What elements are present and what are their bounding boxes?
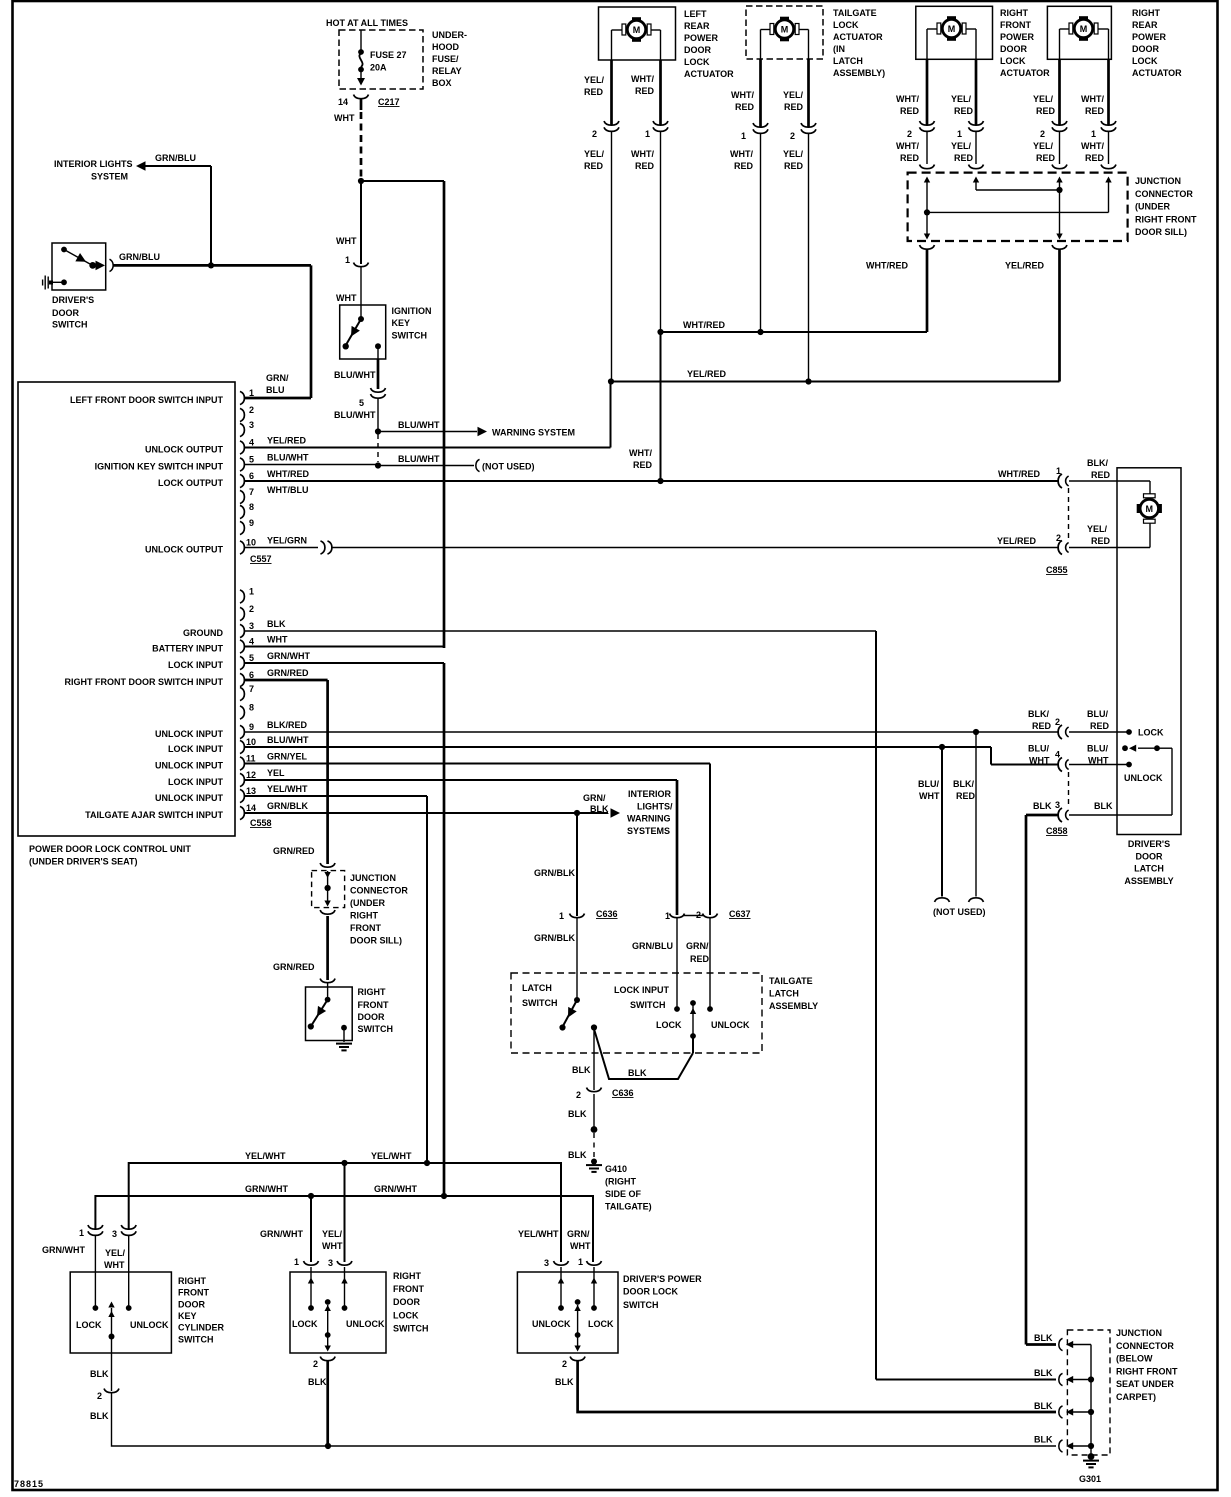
wire YEL/WHT bottom bus <box>129 1151 561 1262</box>
svg-text:GRN/: GRN/ <box>266 373 289 383</box>
node BLU/WHT pin5 junction <box>375 462 381 468</box>
svg-text:SWITCH: SWITCH <box>630 1000 666 1010</box>
connector 3 driver's power switch <box>518 1229 569 1268</box>
svg-text:DOOR SILL): DOOR SILL) <box>1135 227 1187 237</box>
wire YEL/RED junction to bus <box>1005 250 1060 382</box>
svg-text:RED: RED <box>584 161 604 171</box>
svg-text:POWER: POWER <box>1000 32 1035 42</box>
right front door lock switch box <box>290 1267 386 1353</box>
wire GRN/BLU to interior lights system <box>136 153 211 265</box>
junction connector (under right front door sill) small <box>312 863 345 914</box>
C558 pin numbers <box>246 587 256 814</box>
connector C557 pin brackets <box>240 391 244 554</box>
wire GRN/BLK down to tailgate latch <box>534 813 577 916</box>
svg-text:RIGHT: RIGHT <box>1132 8 1161 18</box>
svg-text:RED: RED <box>734 161 754 171</box>
svg-text:1: 1 <box>578 1257 583 1267</box>
svg-text:RED: RED <box>954 153 974 163</box>
label right front power door lock actuator <box>1000 8 1050 78</box>
svg-text:1: 1 <box>294 1257 299 1267</box>
wire BLK ground bus to junction horizontal <box>876 1379 1056 1381</box>
svg-text:GRN/BLK: GRN/BLK <box>267 801 308 811</box>
wire right rear pin2 into junction connector <box>1059 132 1061 164</box>
svg-text:DOOR SILL): DOOR SILL) <box>350 936 402 946</box>
svg-text:BLU/WHT: BLU/WHT <box>267 453 309 463</box>
svg-text:BLK: BLK <box>1094 801 1113 811</box>
wire BLK to G410 <box>568 1094 597 1160</box>
svg-text:SYSTEM: SYSTEM <box>91 172 128 182</box>
wire YEL/RED down to unlock output pin4 <box>610 382 612 448</box>
svg-text:LOCK: LOCK <box>76 1320 102 1330</box>
svg-text:(NOT USED): (NOT USED) <box>482 462 535 472</box>
svg-text:LOCK: LOCK <box>588 1319 614 1329</box>
svg-text:RED: RED <box>784 161 804 171</box>
svg-text:BLK: BLK <box>1034 1401 1053 1411</box>
svg-text:BLK: BLK <box>90 1411 109 1421</box>
motor M driver's door latch <box>1137 494 1162 523</box>
wire BLU/WHT dashed to pin 5 <box>377 434 379 462</box>
label G410 right side of tailgate <box>605 1164 652 1212</box>
wire YEL/RED down to YEL/RED bus <box>611 132 613 382</box>
wire GRN/BLU to lock contact <box>632 918 682 1030</box>
svg-text:KEY: KEY <box>392 318 411 328</box>
svg-text:IGNITION KEY SWITCH INPUT: IGNITION KEY SWITCH INPUT <box>95 462 224 472</box>
svg-text:RIGHT: RIGHT <box>393 1271 422 1281</box>
svg-text:SIDE OF: SIDE OF <box>605 1189 642 1199</box>
svg-text:LOCK OUTPUT: LOCK OUTPUT <box>158 478 223 488</box>
svg-text:78815: 78815 <box>14 1479 44 1489</box>
svg-text:BLU/: BLU/ <box>918 779 939 789</box>
wire BLU/WHT from ignition switch <box>334 359 378 389</box>
connector 2 key cylinder <box>90 1389 119 1421</box>
wire BLK driver's switch to junction <box>578 1361 1056 1412</box>
svg-text:LATCH: LATCH <box>1134 864 1164 874</box>
svg-text:BLU/WHT: BLU/WHT <box>267 735 309 745</box>
label interior lights system <box>54 159 133 182</box>
svg-text:BLU/WHT: BLU/WHT <box>334 370 376 380</box>
wire WHT/RED tailgate actuator pin1 <box>731 59 761 127</box>
svg-text:1: 1 <box>665 911 670 921</box>
svg-text:FUSE/: FUSE/ <box>432 54 459 64</box>
connector C858 pin 3 <box>1033 800 1113 822</box>
svg-text:BLU: BLU <box>266 385 285 395</box>
wire BLU/RED to lock contact <box>1069 728 1164 738</box>
connector 1 inline WHT <box>354 263 369 267</box>
svg-text:6: 6 <box>249 670 254 680</box>
svg-text:YEL: YEL <box>267 768 285 778</box>
svg-text:RED: RED <box>1032 721 1052 731</box>
svg-text:ASSEMBLY): ASSEMBLY) <box>833 68 885 78</box>
wire YEL/RED right rear actuator pin2 <box>1033 59 1060 125</box>
svg-text:WHT/BLU: WHT/BLU <box>267 485 309 495</box>
svg-text:LOCK INPUT: LOCK INPUT <box>168 744 224 754</box>
svg-text:C636: C636 <box>596 909 618 919</box>
underhood fuse/relay box (dashed) <box>339 30 423 89</box>
svg-text:FRONT: FRONT <box>393 1284 424 1294</box>
svg-text:UNLOCK: UNLOCK <box>346 1319 385 1329</box>
wire YEL/RED bus horizontal <box>611 369 1060 382</box>
svg-text:LOCK: LOCK <box>656 1020 682 1030</box>
svg-text:20A: 20A <box>370 63 387 73</box>
svg-text:LATCH: LATCH <box>833 56 863 66</box>
tailgate latch assembly dashed box <box>511 973 762 1053</box>
wire WHT/RED right front actuator pin2 <box>896 59 927 125</box>
node junction WHT <box>358 178 364 184</box>
svg-text:1: 1 <box>957 129 962 139</box>
svg-text:14: 14 <box>246 803 256 813</box>
driver's door latch assembly box <box>1117 468 1181 835</box>
svg-text:YEL/RED: YEL/RED <box>687 369 727 379</box>
svg-text:BLK: BLK <box>267 619 286 629</box>
svg-text:YEL/RED: YEL/RED <box>1005 261 1045 271</box>
svg-text:C637: C637 <box>729 909 751 919</box>
connector C217 pin 14 <box>338 95 400 110</box>
svg-text:POWER: POWER <box>684 33 719 43</box>
node YEL/WHT pin13 <box>424 1160 430 1166</box>
svg-text:2: 2 <box>696 910 701 920</box>
C855 dashed link <box>1068 488 1070 541</box>
svg-text:ACTUATOR: ACTUATOR <box>684 69 734 79</box>
wire BLK/RED to latch motor <box>1069 481 1150 494</box>
svg-text:BLK: BLK <box>1034 1435 1053 1445</box>
svg-text:GRN/WHT: GRN/WHT <box>260 1229 303 1239</box>
svg-text:FRONT: FRONT <box>1000 20 1031 30</box>
motor M tailgate lock actuator <box>770 17 799 42</box>
tailgate lock actuator box (dashed) <box>746 6 823 59</box>
svg-text:WHT/: WHT/ <box>1081 141 1104 151</box>
svg-text:YEL/: YEL/ <box>783 149 804 159</box>
svg-text:WHT: WHT <box>919 791 940 801</box>
svg-text:YEL/RED: YEL/RED <box>267 436 307 446</box>
wire GRN/WHT lock input pin5 <box>245 651 444 1196</box>
wire GRN/YEL unlock input pin11 <box>245 752 710 916</box>
svg-text:RIGHT FRONT: RIGHT FRONT <box>1135 214 1197 224</box>
svg-text:RED: RED <box>1036 106 1056 116</box>
svg-text:7: 7 <box>249 487 254 497</box>
svg-text:BLK: BLK <box>555 1377 574 1387</box>
svg-text:YEL/WHT: YEL/WHT <box>371 1151 412 1161</box>
junction connector exit cups <box>920 245 1068 249</box>
svg-text:GRN/YEL: GRN/YEL <box>267 752 308 762</box>
svg-text:LEFT: LEFT <box>684 9 707 19</box>
svg-text:(NOT USED): (NOT USED) <box>933 907 986 917</box>
wire BLK from key cylinder switch <box>90 1337 112 1392</box>
wire GRN/BLK tailgate ajar switch input pin14 <box>245 801 608 813</box>
label driver's door latch assembly <box>1124 839 1173 886</box>
svg-text:BLU/WHT: BLU/WHT <box>334 410 376 420</box>
junction connector entry cups <box>920 165 1117 169</box>
wire BLU/WHT not used stub <box>918 747 950 902</box>
svg-text:BLK: BLK <box>1033 801 1052 811</box>
svg-text:YEL/: YEL/ <box>584 149 605 159</box>
svg-text:RED: RED <box>635 161 655 171</box>
svg-text:DOOR LOCK: DOOR LOCK <box>623 1287 678 1297</box>
svg-text:2: 2 <box>562 1359 567 1369</box>
switch lever driver's door latch <box>1069 745 1172 815</box>
svg-text:WHT: WHT <box>334 113 355 123</box>
junction internal wire WHT/RED branch <box>924 177 930 240</box>
wire YEL/WHT unlock input pin13 <box>245 784 427 1163</box>
svg-text:2: 2 <box>249 604 254 614</box>
svg-text:WHT/: WHT/ <box>629 448 652 458</box>
wire WHT to battery vertical <box>361 180 444 182</box>
svg-text:WHT/RED: WHT/RED <box>683 320 725 330</box>
svg-text:C557: C557 <box>250 554 272 564</box>
wire BLK/RED not used stub <box>953 732 984 902</box>
wire YEL/RED from latch motor <box>1069 523 1150 548</box>
label driver's door switch <box>52 295 94 330</box>
svg-text:INTERIOR: INTERIOR <box>628 789 672 799</box>
svg-text:BLU/: BLU/ <box>1087 709 1108 719</box>
svg-text:GRN/RED: GRN/RED <box>273 962 315 972</box>
svg-text:10: 10 <box>246 737 256 747</box>
svg-text:DOOR: DOOR <box>1132 44 1160 54</box>
svg-text:RIGHT FRONT DOOR SWITCH INPUT: RIGHT FRONT DOOR SWITCH INPUT <box>65 677 224 687</box>
connector 1 tailgate <box>730 123 768 171</box>
svg-text:2: 2 <box>1040 129 1045 139</box>
node junction YEL/RED <box>1056 187 1062 193</box>
junction seat connector 1 BLK <box>1034 1333 1091 1351</box>
svg-text:BLK: BLK <box>568 1150 587 1160</box>
driver's door switch <box>43 243 106 290</box>
svg-text:2: 2 <box>97 1391 102 1401</box>
wire BLU/WHT (NOT USED) stub <box>378 454 535 472</box>
svg-text:5: 5 <box>249 653 254 663</box>
svg-text:RIGHT FRONT: RIGHT FRONT <box>1116 1366 1178 1376</box>
svg-text:GRN/BLK: GRN/BLK <box>534 868 575 878</box>
wire BLK C858 to junction horizontal <box>1026 1343 1056 1346</box>
svg-text:LATCH: LATCH <box>769 989 799 999</box>
svg-text:BLK: BLK <box>568 1109 587 1119</box>
svg-text:RED: RED <box>1085 153 1105 163</box>
svg-text:YEL/: YEL/ <box>584 75 605 85</box>
svg-text:REAR: REAR <box>1132 20 1158 30</box>
svg-text:RIGHT: RIGHT <box>1000 8 1029 18</box>
wire GRN/BLK arrow to interior lights <box>583 793 620 818</box>
svg-text:LOCK: LOCK <box>1138 728 1164 738</box>
svg-text:C855: C855 <box>1046 565 1068 575</box>
svg-text:RED: RED <box>584 87 604 97</box>
node GRN/WHT pin5 <box>441 1193 447 1199</box>
svg-text:2: 2 <box>576 1090 581 1100</box>
svg-text:GRN/BLU: GRN/BLU <box>119 252 160 262</box>
svg-text:BLK/: BLK/ <box>953 779 974 789</box>
wire BLK/RED unlock input pin9 <box>245 720 1059 732</box>
svg-text:GRN/: GRN/ <box>686 941 709 951</box>
svg-text:BLK: BLK <box>308 1377 327 1387</box>
node BLK latch junction <box>591 1024 597 1030</box>
wire GRN/WHT bottom bus <box>95 1184 593 1262</box>
svg-text:KEY: KEY <box>178 1311 197 1321</box>
svg-text:2: 2 <box>1056 533 1061 543</box>
svg-text:4: 4 <box>249 637 254 647</box>
svg-text:ASSEMBLY: ASSEMBLY <box>769 1001 818 1011</box>
svg-text:LEFT FRONT DOOR SWITCH INPUT: LEFT FRONT DOOR SWITCH INPUT <box>70 395 223 405</box>
svg-text:YEL/: YEL/ <box>1087 524 1108 534</box>
svg-text:YEL/: YEL/ <box>1033 94 1054 104</box>
wire YEL/WHT to right front door lock switch <box>344 1163 346 1262</box>
svg-text:RED: RED <box>956 791 976 801</box>
wire WHT/RED tailgate down to bus <box>760 134 762 332</box>
svg-text:1: 1 <box>645 129 650 139</box>
svg-text:SWITCH: SWITCH <box>522 998 558 1008</box>
label tailgate latch assembly <box>769 976 818 1011</box>
svg-text:UNLOCK OUTPUT: UNLOCK OUTPUT <box>145 445 223 455</box>
svg-text:1: 1 <box>1056 466 1061 476</box>
svg-text:DOOR: DOOR <box>1136 852 1164 862</box>
svg-text:GROUND: GROUND <box>183 628 223 638</box>
node BLU/WHT stub junction <box>939 744 945 750</box>
node WHT/RED bus tailgate <box>757 329 763 335</box>
connector 2 right rear <box>1033 121 1067 163</box>
svg-text:SWITCH: SWITCH <box>623 1300 659 1310</box>
label driver's power door lock switch <box>623 1274 702 1310</box>
svg-text:LOCK: LOCK <box>833 20 859 30</box>
power door lock control unit box <box>18 382 235 836</box>
svg-text:RED: RED <box>1090 721 1110 731</box>
wire BLK from C858 pin3 <box>1026 815 1059 1345</box>
wire GRN/BLU driver's door switch to pin 1 <box>113 252 311 398</box>
wire YEL/GRN unlock output pin10 <box>245 536 1059 555</box>
svg-text:3: 3 <box>328 1258 333 1268</box>
junction seat connector 4 BLK <box>1034 1435 1091 1453</box>
svg-text:LOCK: LOCK <box>1000 56 1026 66</box>
svg-text:CARPET): CARPET) <box>1116 1392 1156 1402</box>
wire right front pin2 into junction connector <box>926 132 928 164</box>
svg-text:DOOR: DOOR <box>393 1297 421 1307</box>
svg-text:(UNDER DRIVER'S SEAT): (UNDER DRIVER'S SEAT) <box>29 857 137 867</box>
wire WHT down to ignition key switch <box>360 181 362 264</box>
label junction connector small <box>350 873 408 946</box>
svg-text:BLK: BLK <box>90 1369 109 1379</box>
connector 2 door lock switch <box>308 1357 335 1387</box>
svg-text:GRN/: GRN/ <box>567 1229 590 1239</box>
svg-text:UNLOCK: UNLOCK <box>130 1320 169 1330</box>
svg-text:WHT/: WHT/ <box>631 74 654 84</box>
wire BLU/WHT to unlock contact <box>1069 762 1163 783</box>
svg-text:DRIVER'S POWER: DRIVER'S POWER <box>623 1274 702 1284</box>
svg-text:HOT AT ALL TIMES: HOT AT ALL TIMES <box>326 18 408 28</box>
svg-text:6: 6 <box>249 471 254 481</box>
svg-text:DOOR: DOOR <box>684 45 712 55</box>
wire YEL lock input pin12 <box>245 768 677 915</box>
wire GRN/BLK into latch switch <box>534 918 577 1000</box>
svg-text:YEL/WHT: YEL/WHT <box>267 784 308 794</box>
svg-text:UNLOCK: UNLOCK <box>532 1319 571 1329</box>
svg-text:BOX: BOX <box>432 78 452 88</box>
svg-text:DOOR: DOOR <box>178 1300 206 1310</box>
svg-text:YEL/: YEL/ <box>105 1248 126 1258</box>
svg-text:FRONT: FRONT <box>358 1000 389 1010</box>
svg-text:DOOR: DOOR <box>358 1012 386 1022</box>
svg-text:YEL/: YEL/ <box>951 141 972 151</box>
wire BLK latch common <box>594 1029 693 1079</box>
driver's power door lock switch box <box>517 1267 618 1353</box>
svg-text:1: 1 <box>79 1228 84 1238</box>
svg-text:ASSEMBLY: ASSEMBLY <box>1124 876 1173 886</box>
svg-text:BLU/: BLU/ <box>1087 744 1108 754</box>
svg-text:YEL/WHT: YEL/WHT <box>245 1151 286 1161</box>
wire GRN/RED right front door switch input pin6 <box>245 668 328 864</box>
svg-text:DOOR: DOOR <box>1000 44 1028 54</box>
svg-text:FRONT: FRONT <box>178 1288 209 1298</box>
label underhood fuse/relay box <box>432 30 467 88</box>
svg-text:13: 13 <box>246 786 256 796</box>
connector 2 right front <box>896 121 935 163</box>
svg-text:12: 12 <box>246 770 256 780</box>
connector C636 pin 1 <box>559 909 618 921</box>
ground G301 <box>1079 1453 1101 1484</box>
svg-text:WHT: WHT <box>336 236 357 246</box>
svg-text:UNLOCK OUTPUT: UNLOCK OUTPUT <box>145 545 223 555</box>
svg-text:RIGHT: RIGHT <box>350 911 379 921</box>
svg-text:RIGHT: RIGHT <box>358 987 387 997</box>
connector 1 right front <box>951 121 984 163</box>
svg-text:LOCK: LOCK <box>684 57 710 67</box>
svg-text:1: 1 <box>741 131 746 141</box>
svg-text:YEL/: YEL/ <box>783 90 804 100</box>
svg-text:UNDER-: UNDER- <box>432 30 467 40</box>
C858 dashed link <box>1068 772 1070 808</box>
junction connector (below right front seat) dashed box <box>1067 1330 1110 1455</box>
label junction connector seat <box>1116 1328 1178 1402</box>
svg-text:GRN/BLU: GRN/BLU <box>155 153 196 163</box>
svg-text:YEL/WHT: YEL/WHT <box>518 1229 559 1239</box>
motor M left rear actuator <box>622 17 651 42</box>
svg-text:WHT/RED: WHT/RED <box>267 469 309 479</box>
svg-text:SWITCH: SWITCH <box>178 1335 214 1345</box>
svg-text:SWITCH: SWITCH <box>392 331 428 341</box>
svg-text:4: 4 <box>249 438 254 448</box>
svg-text:RED: RED <box>954 106 974 116</box>
svg-text:RIGHT: RIGHT <box>178 1276 207 1286</box>
latch switch lever <box>559 997 580 1031</box>
svg-text:RED: RED <box>900 106 920 116</box>
wire right front pin1 into junction connector <box>975 132 977 164</box>
svg-text:5: 5 <box>249 455 254 465</box>
svg-text:BATTERY INPUT: BATTERY INPUT <box>152 644 223 654</box>
node junction WHT/RED <box>924 209 930 215</box>
svg-text:9: 9 <box>249 518 254 528</box>
connector 3 key cylinder <box>104 1225 136 1270</box>
svg-text:2: 2 <box>313 1359 318 1369</box>
motor M right front actuator <box>937 16 966 41</box>
wire WHT/RED junction to bus <box>866 250 927 333</box>
svg-text:8: 8 <box>249 502 254 512</box>
svg-text:14: 14 <box>338 97 348 107</box>
right rear power door lock actuator box <box>1047 6 1111 59</box>
svg-text:1: 1 <box>249 587 254 597</box>
wire GRN/RED to unlock contact <box>686 918 750 1030</box>
svg-text:BLK/: BLK/ <box>1087 458 1108 468</box>
connector 1 key cylinder <box>42 1225 103 1255</box>
wire BLK to C636 pin 2 <box>572 1028 594 1091</box>
svg-text:RED: RED <box>1091 470 1111 480</box>
svg-text:ACTUATOR: ACTUATOR <box>1000 68 1050 78</box>
svg-text:WHT/: WHT/ <box>730 149 753 159</box>
node GRN/WHT mid <box>308 1193 314 1199</box>
svg-text:ACTUATOR: ACTUATOR <box>833 32 883 42</box>
label latch switch <box>522 983 558 1008</box>
svg-text:INTERIOR LIGHTS: INTERIOR LIGHTS <box>54 159 133 169</box>
wire BLU/WHT lock input pin10 <box>245 735 1059 765</box>
connector C636 pin 2 <box>576 1088 634 1100</box>
wire WHT/RED down to lock output pin6 <box>660 332 662 481</box>
junction internal wire WHT/RED branch B <box>927 177 1112 213</box>
svg-text:GRN/RED: GRN/RED <box>267 668 309 678</box>
svg-text:SEAT UNDER: SEAT UNDER <box>1116 1379 1174 1389</box>
svg-text:WHT: WHT <box>267 635 288 645</box>
